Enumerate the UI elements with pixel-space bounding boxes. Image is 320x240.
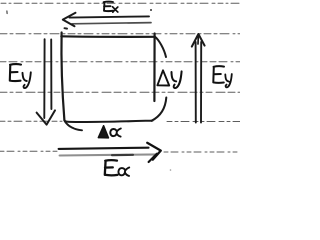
bottom arrow line 1	[59, 148, 149, 149]
bottom arrow head	[147, 143, 161, 160]
right arrow tip stem	[197, 34, 199, 44]
label Ex bottom: E	[105, 160, 118, 175]
bottom arrow line 2 dark segment	[112, 154, 133, 156]
top arrow line 1	[70, 16, 150, 17]
label Delta-y: Delta	[157, 70, 169, 85]
label Ey left: E	[10, 64, 21, 81]
top arrow line 2	[72, 23, 151, 24]
label Ex bottom: x subscript (alpha style)	[118, 168, 129, 176]
bottom arrow line 2	[60, 154, 158, 155]
square top edge	[61, 35, 154, 38]
square bottom-right swoosh	[152, 98, 167, 121]
square left edge	[61, 33, 64, 121]
square right edge	[153, 34, 155, 102]
stray tick left margin	[6, 11, 8, 14]
stray dot right of top arrow	[150, 9, 152, 11]
label Ey left: y subscript	[23, 72, 31, 88]
label Ex top: E	[104, 2, 114, 12]
ruled line 1	[1, 2, 240, 4]
bottom arrow head tail	[149, 154, 157, 162]
stray dot bottom right	[170, 169, 172, 171]
label Delta-x: x (alpha style)	[110, 129, 121, 137]
ruled line 4	[0, 91, 240, 93]
right arrow head	[192, 34, 205, 47]
square bottom-left corner flick	[65, 121, 82, 130]
right arrow line 2	[200, 42, 202, 123]
left arrow head	[37, 110, 55, 124]
left arrow line 2	[50, 40, 52, 110]
ruled line 6	[0, 150, 240, 153]
left arrow line 1	[43, 39, 45, 118]
square top-right hook	[155, 37, 166, 58]
label Ey right: y subscript	[225, 74, 232, 87]
right arrow line 1	[195, 42, 197, 123]
ruled line 2	[0, 33, 240, 35]
stray mark above square top-left	[65, 27, 68, 29]
ruled line 3	[0, 61, 240, 63]
label Delta-y: y	[172, 71, 182, 88]
label Ex top: x subscript	[113, 7, 118, 12]
square bottom edge	[64, 120, 152, 122]
ruled line 5	[0, 120, 240, 122]
label Delta-x: Delta	[98, 126, 108, 138]
top arrow head	[63, 13, 76, 26]
label Ey right: E	[213, 66, 224, 83]
